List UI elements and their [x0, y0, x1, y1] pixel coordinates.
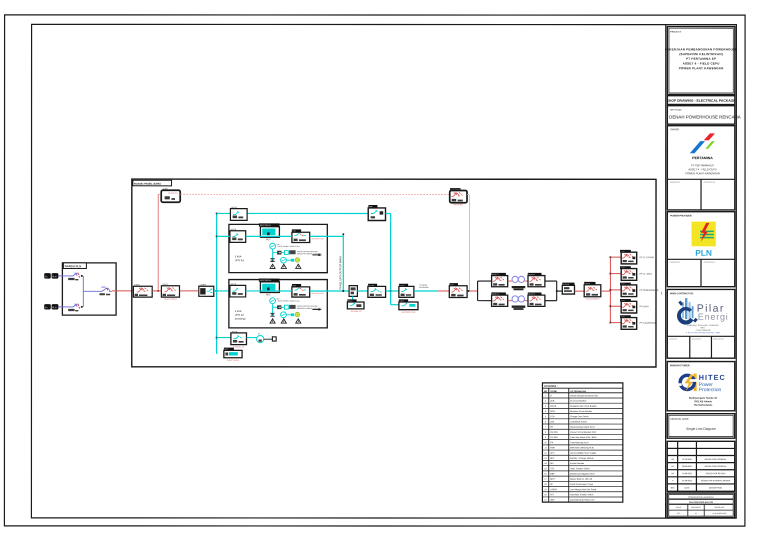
svg-text:PEKERJAAN PEMBANGUNAN POWERHOU: PEKERJAAN PEMBANGUNAN POWERHOUSE	[665, 47, 738, 51]
wire gardu to ruang panel (20kV)	[112, 290, 133, 292]
svg-text:Maintenance Bypass Panel: Maintenance Bypass Panel	[570, 472, 595, 475]
kwh trafo metering box	[450, 188, 467, 206]
svg-text:CHECKED BY:: CHECKED BY:	[670, 262, 681, 264]
svg-text:REC: REC	[266, 294, 271, 296]
svg-text:PLE-PWH-KWG-ELE-001: PLE-PWH-KWG-ELE-001	[689, 502, 714, 504]
svg-text:STS: STS	[550, 468, 555, 470]
svg-text:REC: REC	[550, 458, 555, 460]
svg-text:(BYPASS LINE): (BYPASS LINE)	[312, 237, 324, 240]
svg-text:PT PERTAMINA EP: PT PERTAMINA EP	[686, 57, 716, 61]
title block: drawing number block	[667, 493, 735, 518]
wire STS A2 to output bus	[310, 290, 349, 292]
trafo output box T2b	[528, 292, 542, 295]
LBS Q1 (20kV)	[70, 273, 78, 276]
svg-text:01-09-2015: 01-09-2015	[682, 480, 692, 482]
alarm triangles	[270, 319, 275, 323]
svg-text:UPS: UPS	[550, 453, 555, 455]
title block: drawing name	[667, 414, 735, 439]
svg-text:(existing): (existing)	[235, 317, 246, 321]
rectifier box A2	[260, 282, 279, 293]
svg-text:01: 01	[695, 513, 697, 515]
wire	[357, 290, 368, 292]
battery panel box	[224, 348, 242, 362]
svg-text:ASSET 4 - FIELD CEPU: ASSET 4 - FIELD CEPU	[683, 62, 720, 66]
svg-text:LBS: LBS	[550, 421, 554, 423]
svg-text:DENAH POWERHOUSE RENCANA: DENAH POWERHOUSE RENCANA	[669, 114, 741, 119]
distribution branch 3	[610, 283, 659, 297]
trafo feeder box T2a	[491, 292, 506, 295]
svg-text:12-10-2015: 12-10-2015	[682, 459, 692, 461]
svg-text:E-BATT BANK: E-BATT BANK	[227, 359, 240, 362]
wire branch to pump panel	[217, 337, 231, 339]
svg-text:E-PANEL A2: E-PANEL A2	[233, 345, 244, 348]
distribution branch 1	[610, 250, 655, 264]
svg-text:15-09-2015: 15-09-2015	[682, 473, 692, 475]
motor/charger symbol	[257, 336, 264, 343]
svg-text:PP CADANGAN: PP CADANGAN	[640, 322, 656, 325]
svg-text:UPS A2: UPS A2	[235, 313, 245, 317]
incoming feeder label PLN 1	[44, 273, 51, 278]
contractor signature boxes	[667, 335, 735, 337]
wire feeder1 to LBS1	[58, 275, 70, 277]
incoming feeder label PLN 2	[44, 304, 51, 309]
trafo box TR-01	[161, 284, 179, 301]
svg-text:ISSUED FOR INTERNAL REVIEW: ISSUED FOR INTERNAL REVIEW	[701, 479, 731, 482]
top branch wire to bypass panel	[217, 212, 369, 214]
maintenance bypass box MBP	[368, 205, 385, 221]
svg-text:(SUPERVISI KELISTRIKAN): (SUPERVISI KELISTRIKAN)	[679, 52, 723, 56]
svg-text:PP LT. DASAR: PP LT. DASAR	[640, 256, 655, 259]
svg-text:PT PERTAMINA EP: PT PERTAMINA EP	[691, 163, 714, 167]
svg-text:Battery Bank 2x 108 Cell: Battery Bank 2x 108 Cell	[570, 478, 593, 481]
svg-text:SCALE: SCALE	[676, 506, 682, 509]
output isolator box	[349, 286, 357, 297]
svg-text:MANUFACTURER:: MANUFACTURER:	[670, 364, 690, 367]
Pertamina logo	[690, 133, 715, 153]
inverter	[270, 243, 276, 249]
svg-text:REC: REC	[266, 239, 271, 241]
title block: power provider section	[667, 212, 735, 287]
svg-text:3 kVA: 3 kVA	[235, 309, 242, 313]
battery link row	[273, 306, 285, 308]
svg-text:SHOP DRAWING - ELECTRICAL PACK: SHOP DRAWING - ELECTRICAL PACKAGE	[667, 99, 737, 103]
trafo feeder box T1a	[491, 273, 506, 276]
PLN signature boxes	[667, 258, 735, 260]
title block: shop drawing band	[667, 96, 735, 105]
svg-text:TM: TM	[550, 442, 553, 444]
isolation transformer T2	[508, 300, 512, 302]
svg-text:PLN: PLN	[695, 248, 712, 258]
wire to motor	[246, 337, 256, 339]
title block: key plan	[667, 106, 735, 125]
svg-text:Jl. Raya Tlajung Udik: Jl. Raya Tlajung Udik	[695, 330, 710, 332]
UPS module frame A1	[229, 224, 327, 272]
wire bus to UPS A1	[217, 235, 230, 237]
svg-text:PERTAMINA: PERTAMINA	[692, 156, 713, 160]
svg-text:(BYPASS LINE): (BYPASS LINE)	[312, 292, 324, 295]
svg-text:Static Transfer Switch: Static Transfer Switch	[570, 467, 589, 470]
svg-text:POWER PLANT KAWENGAN: POWER PLANT KAWENGAN	[685, 171, 720, 175]
svg-text:PP-DISTRIBUSI: PP-DISTRIBUSI	[586, 299, 600, 301]
svg-text:Genset (Engine Generator Set): Genset (Engine Generator Set)	[570, 394, 598, 397]
svg-text:CHECKED BY:: CHECKED BY:	[691, 339, 702, 341]
rectifier title band A1	[259, 223, 280, 226]
svg-text:DISTRIBUSI: DISTRIBUSI	[419, 287, 429, 289]
svg-text:Energi: Energi	[698, 312, 729, 322]
UPS output bus	[342, 234, 344, 291]
battery + output row	[270, 313, 274, 316]
svg-text:E-PANEL AC: E-PANEL AC	[351, 310, 363, 313]
svg-text:POWERHOUSE KAWENGAN: POWERHOUSE KAWENGAN	[688, 496, 714, 499]
svg-text:CB 20kV: CB 20kV	[550, 432, 559, 434]
Pilar Energi logo	[677, 298, 729, 325]
svg-text:MCCB: MCCB	[550, 406, 557, 408]
wire motor to resistor box	[264, 338, 273, 340]
svg-text:DATE: DATE	[685, 487, 691, 490]
static switch box A2	[292, 284, 301, 287]
svg-text:CHECKED BY:: CHECKED BY:	[670, 182, 681, 184]
distribution riser bus	[609, 257, 611, 322]
LBS Q2 (20kV)	[70, 304, 78, 307]
CB utama gardu	[99, 287, 112, 291]
svg-text:B0: B0	[672, 473, 674, 475]
gardu PLN enclosure	[62, 263, 116, 315]
svg-text:Miniature Circuit Breaker: Miniature Circuit Breaker	[570, 410, 592, 413]
kwh meter PLN box	[161, 189, 180, 203]
svg-text:POWER PROVIDER:: POWER PROVIDER:	[670, 215, 692, 217]
aux panel box 2 (bypass)	[399, 299, 418, 313]
svg-text:DRAWING NAME:: DRAWING NAME:	[670, 418, 689, 421]
svg-text:LEGENDA :: LEGENDA :	[544, 385, 558, 388]
distribution branch 2	[610, 266, 653, 280]
PP utama box	[584, 282, 601, 301]
svg-text:RUANG PANEL BARU: RUANG PANEL BARU	[134, 182, 161, 186]
title block: owner section	[667, 126, 735, 210]
inverter	[270, 298, 276, 304]
svg-text:Vacuum Circuit Breaker 20kV: Vacuum Circuit Breaker 20kV	[570, 431, 597, 434]
svg-text:Rectifier / Charger Module: Rectifier / Charger Module	[570, 457, 594, 460]
svg-text:Automatic Main Failure Ctrl.: Automatic Main Failure Ctrl.	[570, 499, 595, 502]
wire feeder2 to LBS2	[58, 306, 70, 308]
svg-text:KEY PLAN:: KEY PLAN:	[670, 109, 682, 112]
svg-text:PP LT. SATU: PP LT. SATU	[640, 273, 653, 276]
static switch box A1	[292, 229, 301, 232]
UPS module frame A2	[229, 280, 327, 328]
svg-text:Ex.: Ex.	[45, 307, 48, 309]
title block: revision table	[667, 441, 735, 491]
svg-text:KWH: KWH	[550, 447, 555, 449]
title block: manufacturer section	[667, 361, 735, 410]
wire to distribution bus	[601, 290, 611, 292]
svg-text:Panel Penerangan / Daya: Panel Penerangan / Daya	[570, 484, 594, 486]
genset coupler box	[449, 283, 467, 297]
alarm triangles	[270, 264, 275, 268]
wire segments main bus	[152, 290, 161, 292]
svg-text:Air Circuit Breaker: Air Circuit Breaker	[570, 400, 587, 403]
svg-text:METER PLN: METER PLN	[168, 193, 178, 195]
wire	[574, 290, 584, 292]
wire	[386, 290, 399, 292]
svg-text:ASSET 4 - FIELD CEPU: ASSET 4 - FIELD CEPU	[688, 167, 716, 171]
svg-text:HITEC: HITEC	[699, 373, 726, 382]
wire rec to STS A2	[246, 290, 292, 292]
wire STS A1 to output bus	[310, 235, 344, 237]
svg-text:Low Voltage Main Dist. Panel: Low Voltage Main Dist. Panel	[570, 488, 597, 491]
svg-text:ISSUED FOR APPROVAL: ISSUED FOR APPROVAL	[705, 458, 727, 461]
svg-text:1: 1	[661, 291, 663, 295]
wire to trafo split	[467, 290, 478, 292]
20kV tie bus	[82, 276, 84, 307]
metering dashed wire	[158, 193, 161, 195]
svg-text:Single Line Diagram: Single Line Diagram	[686, 427, 716, 431]
title block: project box	[667, 27, 735, 95]
svg-text:MAIN CONTRACTOR:: MAIN CONTRACTOR:	[670, 292, 694, 295]
svg-text:The Netherlands: The Netherlands	[694, 404, 713, 407]
ruang panel enclosure	[132, 179, 656, 367]
svg-text:METERING: METERING	[454, 204, 464, 206]
svg-text:TRAFO 200kVA: TRAFO 200kVA	[164, 298, 178, 301]
svg-text:MCB: MCB	[550, 411, 555, 413]
svg-text:Trafo Step Down 20kV / 400V: Trafo Step Down 20kV / 400V	[570, 436, 597, 439]
title block: main contractor section	[667, 289, 735, 358]
incoming CB box CB-01	[133, 284, 152, 297]
svg-text:PAPER SIZE: PAPER SIZE	[715, 506, 726, 509]
svg-text:DESCRIPTION: DESCRIPTION	[709, 488, 723, 490]
svg-text:PP PENERANGAN: PP PENERANGAN	[640, 289, 659, 292]
svg-text:POWER PLANT KAWENGAN: POWER PLANT KAWENGAN	[679, 66, 724, 70]
svg-text:GARDU PLN: GARDU PLN	[65, 264, 82, 268]
svg-text:Engineering - Procurement - Co: Engineering - Procurement - Construction	[687, 324, 718, 327]
svg-text:DRG SHEET: DRG SHEET	[691, 507, 701, 509]
aux panel box 1	[347, 299, 364, 313]
svg-text:ISSUED FOR APPROVAL: ISSUED FOR APPROVAL	[705, 465, 727, 468]
svg-text:PLN: PLN	[52, 276, 57, 278]
panel UPS input bus	[216, 213, 218, 353]
QF output box	[399, 284, 414, 298]
svg-text:Moulded Case Circuit Breaker: Moulded Case Circuit Breaker	[570, 405, 597, 408]
bypass elbow wire	[391, 304, 399, 306]
svg-text:B2: B2	[672, 459, 674, 461]
bypass riser wire	[386, 213, 391, 215]
rectifier title band A2	[259, 279, 280, 282]
PLN logo	[692, 222, 716, 258]
wire rec to STS A1	[246, 235, 292, 237]
battery link row	[273, 252, 285, 254]
svg-text:Disconnecting Switch 20 kV: Disconnecting Switch 20 kV	[570, 426, 595, 429]
svg-text:Load Break Switch: Load Break Switch	[570, 420, 587, 423]
wire kwh drop to bus	[157, 194, 159, 291]
battery + output row	[270, 259, 274, 262]
svg-text:B1: B1	[672, 466, 674, 468]
svg-text:28-09-2015: 28-09-2015	[682, 466, 692, 468]
rectifier box A1	[260, 227, 279, 238]
svg-text:MBP: MBP	[550, 473, 555, 475]
legend table	[542, 383, 622, 502]
svg-text:PANEL UPS OUTPUT BARU: PANEL UPS OUTPUT BARU	[338, 256, 342, 290]
svg-text:Trafo Metering 20 kV: Trafo Metering 20 kV	[570, 441, 589, 444]
PP-UPS box	[368, 284, 386, 298]
HITEC logo	[678, 373, 726, 393]
distribution branch 5	[610, 315, 656, 329]
svg-text:ATS: ATS	[550, 493, 554, 496]
trafo output box T1b	[528, 273, 542, 276]
svg-text:UPS A1: UPS A1	[235, 258, 245, 262]
owner signature boxes	[667, 178, 735, 180]
ATS box	[562, 283, 574, 294]
LVMDP box Q-LV	[199, 284, 214, 296]
svg-text:BATT: BATT	[550, 478, 556, 481]
svg-text:Change Over Switch: Change Over Switch	[570, 415, 588, 418]
svg-text:LVMDP: LVMDP	[550, 489, 557, 491]
svg-text:ISSUED FOR REVIEW: ISSUED FOR REVIEW	[706, 473, 726, 475]
aux drop wire	[351, 296, 353, 299]
title block left edge	[665, 25, 667, 518]
svg-text:TR 20kV: TR 20kV	[550, 437, 558, 439]
svg-text:E-BYPASS LINE: E-BYPASS LINE	[401, 311, 416, 314]
svg-text:PLN: PLN	[52, 307, 57, 309]
wire cyan to red transition	[414, 290, 438, 292]
isolation transformer T1	[508, 280, 512, 282]
svg-text:OWNER:: OWNER:	[670, 129, 680, 131]
bypass feed box Q-BYP	[230, 207, 247, 220]
pump feeder box	[231, 331, 247, 348]
svg-text:Inverter Module: Inverter Module	[570, 462, 585, 465]
svg-text:A1 (LANDSCAPE): A1 (LANDSCAPE)	[712, 512, 726, 515]
svg-text:COS: COS	[550, 416, 555, 418]
resistor box	[272, 337, 276, 341]
svg-text:PROJECT:: PROJECT:	[670, 32, 681, 34]
trafo merge bus	[556, 281, 558, 301]
svg-text:ACB: ACB	[550, 400, 555, 403]
metering drop wire	[467, 193, 470, 195]
svg-text:Office :: Office :	[700, 327, 706, 329]
svg-text:Automatic Transfer Switch: Automatic Transfer Switch	[570, 493, 593, 496]
svg-text:kWh Meter (Metering PLN): kWh Meter (Metering PLN)	[570, 446, 594, 449]
trafo split bus	[477, 281, 479, 301]
svg-text:Uninterruptible Power Supply: Uninterruptible Power Supply	[570, 452, 596, 455]
svg-text:3 kVA: 3 kVA	[235, 254, 242, 258]
svg-text:Protection: Protection	[699, 387, 722, 393]
distribution branch 4	[610, 299, 650, 313]
svg-text:Ex.: Ex.	[45, 276, 48, 278]
svg-text:PP DAYA: PP DAYA	[640, 305, 650, 308]
